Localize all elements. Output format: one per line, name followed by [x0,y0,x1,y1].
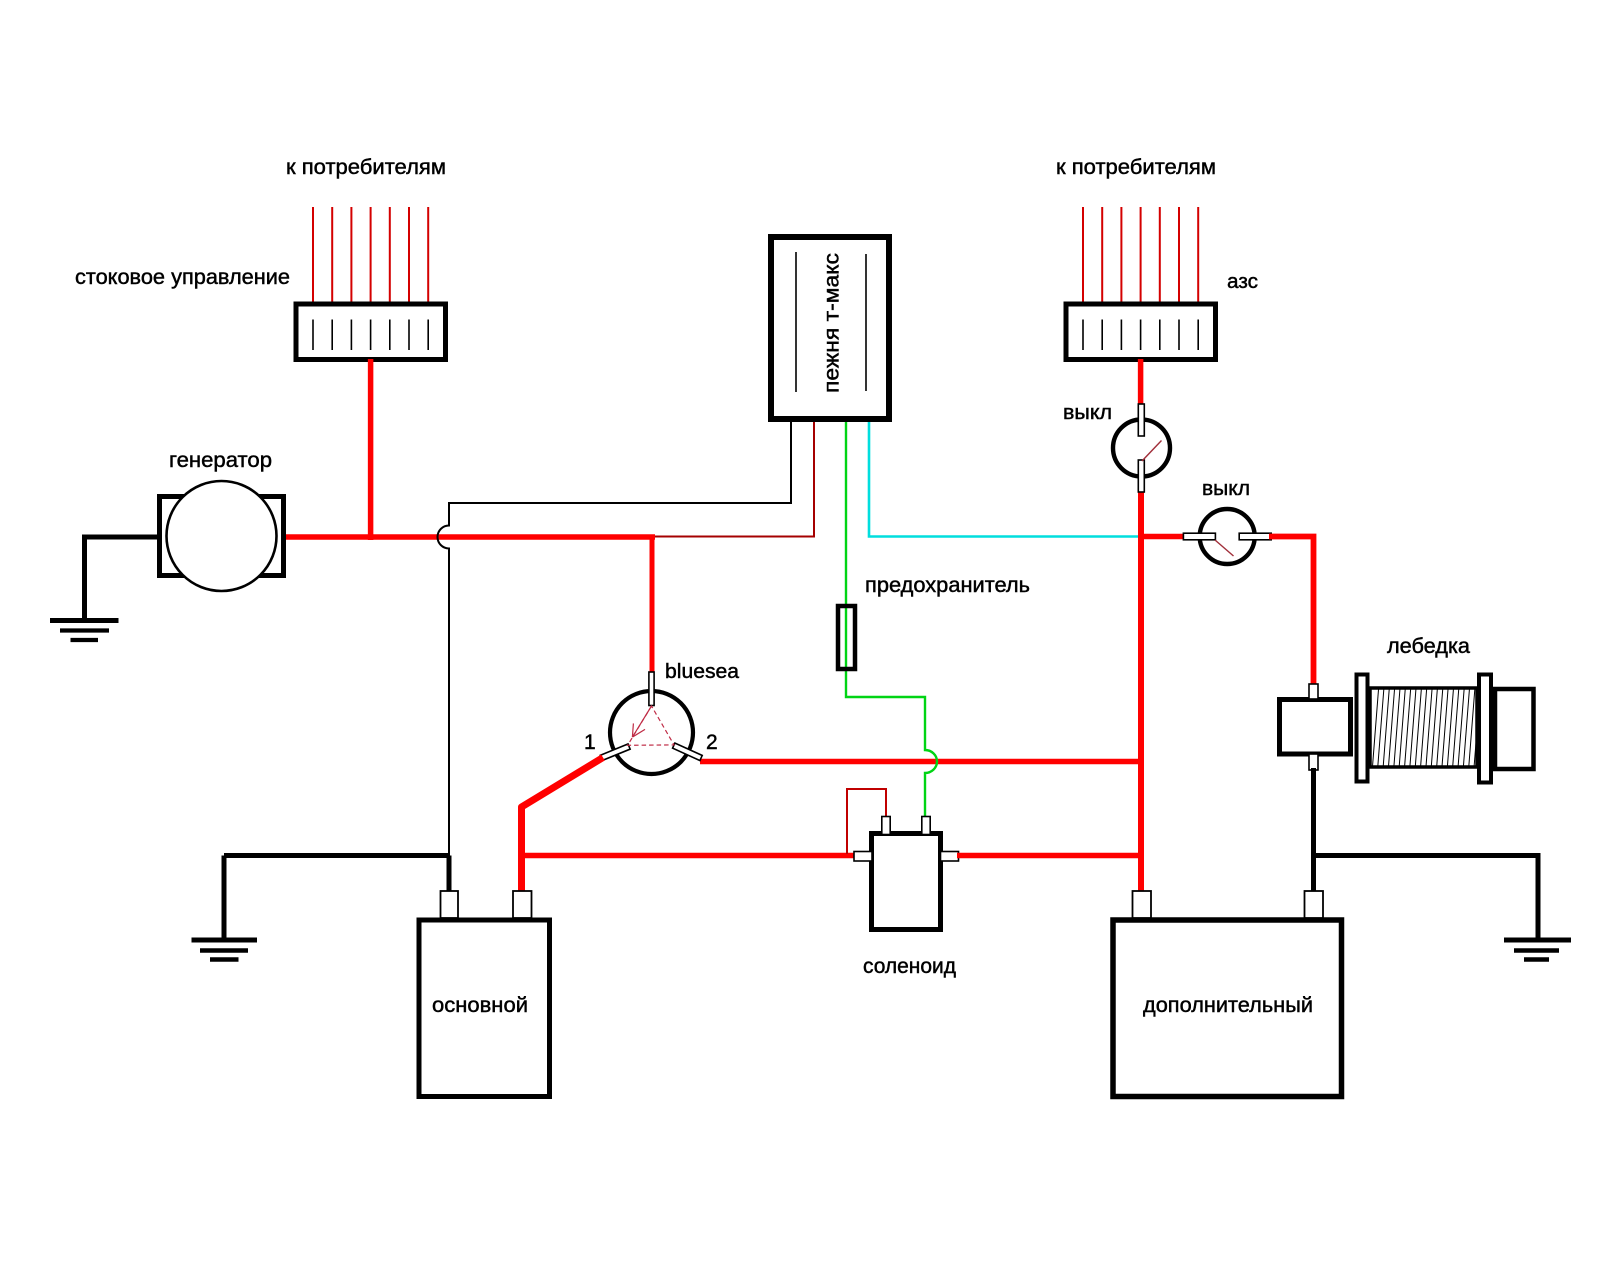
terminal: bluesea 1 [600,744,630,761]
wire: generator ground black wire [85,537,161,618]
wire: black from winch bottom to aux battery minus and ground [1314,768,1539,940]
wire: green from пежня box through fuse to solenoid (hops over red bus) [846,422,937,833]
box: пежня т-макс [771,237,889,419]
symbol: SW2 red lever [1215,540,1234,556]
wire: consumer feeder red lines (right block) [1083,207,1198,303]
wire: red bus y=855 left segment to solenoid [522,853,859,859]
svg-text:лебедка: лебедка [1387,635,1470,658]
svg-text:генератор: генератор [169,449,272,472]
switch SW2: выкл (horizontal) [1200,509,1255,564]
svg-text:к потребителям: к потребителям [286,156,446,179]
symbol: bluesea dashed triangle [628,706,674,745]
terminal: winch top [1309,684,1318,699]
svg-text:bluesea: bluesea [665,661,740,683]
svg-text:азс: азс [1227,271,1258,293]
terminal: aux battery minus [1305,891,1324,918]
winch right flange [1479,675,1491,783]
terminal: solenoid left [854,852,872,862]
wire: cyan from пежня box to right red vertical [869,422,1141,537]
battery: дополнительный [1113,920,1342,1097]
terminal block: стоковое управление [296,304,446,360]
wire: red stub from vertical to SW2 left terminal [1141,534,1184,540]
wire: red drop from bus to bluesea top terminal [650,535,655,677]
terminal: aux battery plus [1133,891,1152,918]
fuse F1: предохранитель [838,606,855,669]
battery: основной [419,920,550,1097]
winch motor left box [1280,700,1351,755]
svg-text:соленоид: соленоид [863,955,956,978]
terminal: SW2 right [1239,533,1271,540]
switch: bluesea body [610,691,693,774]
terminal: SW1 bottom [1138,460,1144,492]
wire: left battery black thick wires and ground [224,856,449,941]
ground: right ground [1504,940,1571,960]
generator G1 [160,481,284,591]
wire: thin black from пежня box to main battery minus (hops over red bus) [438,422,791,856]
wire: right red vertical x=1141 [1138,490,1144,895]
winch left flange [1357,675,1368,782]
terminal: main battery plus [513,891,532,918]
terminal: bluesea top [649,672,654,706]
terminal: solenoid right [941,852,959,862]
svg-text:к потребителям: к потребителям [1056,156,1216,179]
switch SW1: выкл (vertical) [1113,420,1170,477]
wire: red bus from bluesea-2 to right red vertical [700,759,1143,765]
terminal: solenoid coil left [882,817,890,835]
terminal: winch bottom [1309,754,1318,770]
svg-text:выкл: выкл [1063,402,1112,424]
ground: generator ground [50,621,119,641]
wire: red drop from азс block to switch1 [1138,359,1144,406]
terminal: main battery minus [441,891,459,918]
solenoid box [872,834,941,930]
wire: thick red from bluesea-1 down to main battery plus [522,758,604,896]
symbol: SW1 red lever [1142,441,1162,462]
terminal: SW2 left [1183,533,1215,540]
wire: thin red loop to solenoid coil terminal [847,789,886,854]
svg-text:предохранитель: предохранитель [865,574,1030,597]
svg-text:стоковое управление: стоковое управление [75,266,290,289]
svg-text:1: 1 [584,731,596,754]
terminal block: азс [1066,304,1216,360]
svg-text:основной: основной [432,993,528,1017]
terminal: solenoid coil right [922,817,930,835]
wire: main red bus y=537 [283,534,655,540]
winch drum coil [1370,688,1477,767]
svg-text:пежня т-макс: пежня т-макс [821,253,844,393]
svg-text:выкл: выкл [1202,478,1250,500]
symbol: bluesea arrow [632,706,651,737]
wire: consumer feeder red lines (left block) [313,207,428,303]
terminal: bluesea 2 [673,743,703,760]
terminal: SW1 top [1138,404,1144,436]
wire: thin dark red from пежня box to bus junction [655,422,814,537]
ground: left ground [192,940,258,960]
wire: red from SW2 right terminal to winch [1269,537,1314,689]
winch right box [1495,689,1534,769]
wire: red bus y=855 right segment from solenoid to right vertical [957,853,1143,859]
svg-text:дополнительный: дополнительный [1143,993,1313,1017]
wire: red drop from left block to main bus [368,359,374,540]
svg-text:2: 2 [706,731,718,754]
